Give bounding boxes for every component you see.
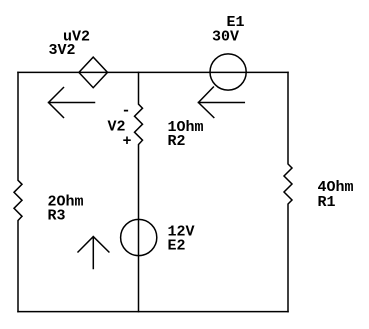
svg-text:R1: R1 xyxy=(318,194,336,211)
svg-text:+: + xyxy=(123,133,132,150)
svg-text:E2: E2 xyxy=(168,238,186,255)
svg-text:R2: R2 xyxy=(168,133,186,150)
svg-text:-: - xyxy=(122,103,131,120)
svg-text:R3: R3 xyxy=(48,208,66,225)
svg-text:3V2: 3V2 xyxy=(49,42,76,59)
svg-text:30V: 30V xyxy=(212,29,239,46)
